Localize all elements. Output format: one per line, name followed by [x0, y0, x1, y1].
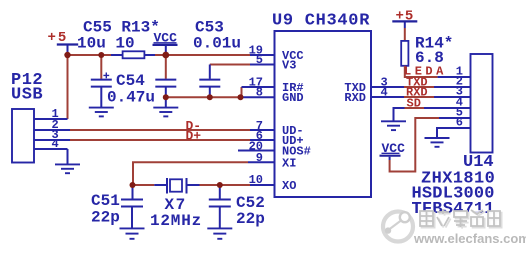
wire TXD chip to U14 pin2 — [371, 86, 404, 88]
svg-text:D+: D+ — [186, 129, 202, 144]
ground (under C54) — [153, 108, 178, 117]
connector U14 box — [471, 54, 493, 153]
svg-text:C51: C51 — [91, 192, 120, 210]
wire crystal left (red) — [133, 184, 154, 186]
ground (U14 pin6) — [425, 138, 450, 147]
wire U14 pin5 stub blue — [439, 117, 471, 119]
capacitor C53 — [199, 80, 220, 98]
svg-text:6: 6 — [456, 116, 463, 130]
chip right pin labels — [344, 81, 366, 105]
capacitor C52 — [209, 185, 231, 228]
wire RXD chip to U14 pin3 — [371, 96, 404, 98]
wire +5 to R14 (red) — [404, 28, 406, 41]
wire +5 rail to C55 (red) — [68, 54, 112, 56]
capacitor C54 — [155, 80, 176, 108]
capacitor C55 — [91, 73, 112, 108]
wire D- (red) — [70, 129, 250, 131]
wire pin8 stub blue — [242, 96, 275, 98]
wire VCC to U14 pin5 (red) — [390, 118, 439, 172]
wire R14 to LEDA (red) — [405, 66, 438, 77]
svg-text:12MHz: 12MHz — [150, 212, 202, 230]
wire D+ (red) — [70, 139, 250, 141]
wire C53 top stub blue — [209, 65, 211, 79]
junction node IR# to GND — [238, 94, 244, 100]
chip left pin numbers — [249, 44, 263, 188]
wire C55 top stub (red) — [100, 55, 102, 79]
connector P12 USB — [12, 109, 34, 163]
svg-text:SD: SD — [407, 96, 421, 110]
svg-text:XO: XO — [282, 179, 296, 193]
junction node VCC — [162, 52, 169, 59]
svg-text:5: 5 — [256, 53, 263, 67]
ground (SD) — [381, 121, 406, 130]
wire rail blue into R13 left — [111, 54, 123, 56]
resistor R13 — [123, 51, 145, 58]
watermark chinese characters — [420, 209, 500, 227]
crystal X7 — [167, 178, 187, 194]
wire VCC node to chip pin19 (red) — [166, 54, 250, 56]
svg-text:22p: 22p — [91, 209, 120, 227]
U14 pin numbers — [456, 65, 463, 130]
svg-text:U9 CH340R: U9 CH340R — [272, 12, 370, 31]
USB pin 3 stub — [34, 139, 70, 141]
wire USB pin4 to ground — [67, 149, 69, 164]
svg-text:RXD: RXD — [344, 91, 366, 105]
wire D+ stub at chip — [250, 139, 275, 141]
ground (under C55) — [89, 108, 114, 117]
svg-text:4: 4 — [52, 137, 59, 151]
junction node XO / C52 — [217, 182, 223, 188]
svg-text:www.elecfans.com: www.elecfans.com — [413, 231, 526, 246]
svg-text:9: 9 — [256, 151, 263, 165]
svg-text:0.01u: 0.01u — [193, 35, 241, 53]
wire crystal right stub blue — [187, 184, 200, 186]
svg-text:8: 8 — [256, 86, 263, 100]
power port +5 (right) — [392, 9, 417, 29]
wire R13 to VCC node (red) — [155, 54, 166, 56]
watermark chinese characters shadow — [422, 211, 502, 229]
USB pin 4 stub — [34, 148, 68, 150]
wire pin5 stub blue — [250, 64, 275, 66]
USB pin 1 wire — [34, 118, 68, 120]
svg-text:22p: 22p — [236, 210, 265, 228]
wire pin19 stub blue — [250, 54, 275, 56]
wire GND rail (red) — [166, 96, 242, 98]
capacitor C51 — [121, 185, 143, 228]
svg-text:GND: GND — [282, 91, 304, 105]
svg-text:10: 10 — [249, 173, 263, 187]
USB pin 2 stub — [34, 129, 70, 131]
ground (under C52) — [207, 228, 232, 238]
svg-text:XI: XI — [282, 156, 296, 170]
junction node +5 rail / USB pin1 — [64, 52, 70, 58]
wire SD U14 pin4 to ground — [424, 107, 471, 109]
wire +5 down to USB pin1 (red) — [67, 55, 69, 119]
power port VCC (top) — [153, 31, 178, 56]
ground (USB pin4) — [55, 164, 80, 173]
wire crystal right to C52 to pin10 (red) — [200, 184, 251, 186]
wire C54 top stub (red) — [165, 55, 167, 79]
wire LEDA blue to U14 pin1 — [438, 76, 471, 78]
junction node C53 bottom — [207, 94, 213, 100]
svg-text:USB: USB — [11, 86, 43, 105]
wire D- stub at chip — [250, 129, 275, 131]
watermark logo — [383, 212, 413, 242]
ground (under C51) — [120, 228, 145, 238]
pin20 NOS# stub — [238, 150, 275, 152]
wire pin10 stub blue — [250, 184, 275, 186]
junction node C54 bottom / GND rail — [163, 94, 169, 100]
power port VCC (bottom) — [380, 141, 406, 160]
junction node XI / C51 / crystal — [130, 182, 136, 188]
IC U9 CH340R — [275, 31, 372, 197]
svg-text:C54: C54 — [116, 72, 145, 90]
junction node C55 top — [98, 52, 104, 58]
svg-text:0.47u: 0.47u — [107, 89, 155, 107]
wire pin9 stub blue — [248, 161, 275, 163]
svg-text:10u 10: 10u 10 — [77, 35, 135, 53]
wire V3 pin5 to C53 (red) — [210, 64, 250, 66]
wire XI from pin9 to crystal (red) — [133, 162, 248, 185]
wire U14 pin6 to ground — [437, 128, 471, 138]
power port +5 (left) — [48, 30, 79, 53]
wire crystal left stub blue — [154, 184, 167, 186]
wire R13 right blue — [144, 54, 155, 56]
chip left pin labels — [282, 49, 311, 193]
svg-text:V3: V3 — [282, 59, 296, 73]
wire IR# to gnd rail (red) — [241, 87, 243, 97]
wire pin17 stub blue — [242, 86, 275, 88]
resistor R14 — [401, 41, 408, 66]
